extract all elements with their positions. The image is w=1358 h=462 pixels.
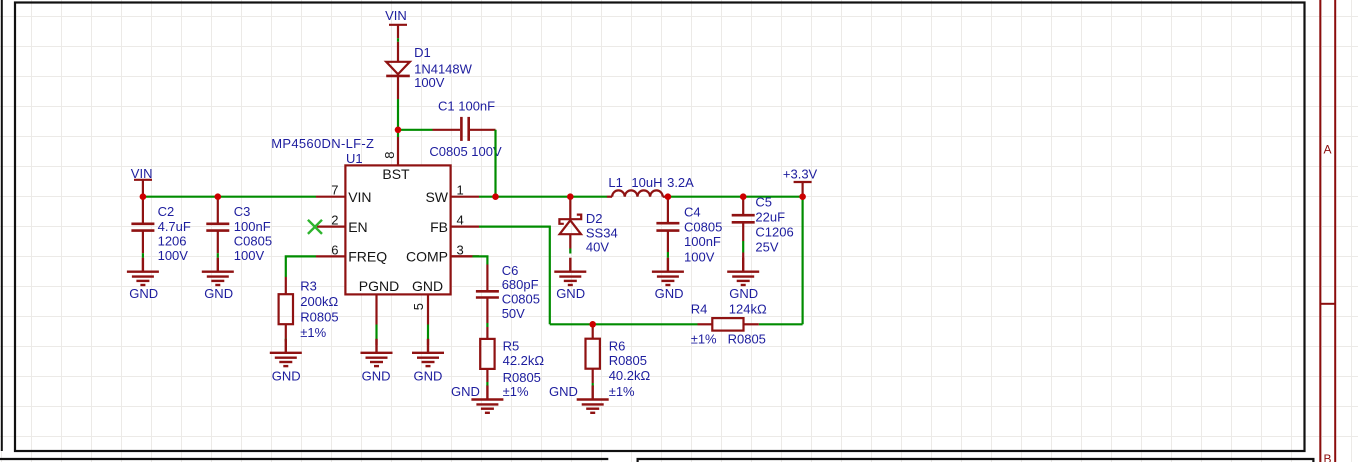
pin 7 VIN [316,196,345,198]
wire bottom feedback [550,323,698,325]
wire BST node to C1 [398,129,433,131]
svg-text:100V: 100V [158,248,189,263]
svg-text:100V: 100V [414,75,445,90]
wire COMP to C6 [473,256,488,264]
svg-text:B: B [1323,452,1331,462]
power flag +3.3V [794,182,812,197]
adjacent sheet edge left [1,0,3,451]
svg-text:D1: D1 [414,45,431,60]
ground under R3 [270,339,302,366]
svg-text:C0805: C0805 [684,219,722,234]
wire L1 to 3.3V [668,196,803,198]
svg-text:R0805: R0805 [300,309,338,324]
svg-text:C1 100nF: C1 100nF [438,98,495,113]
resistor R4 [698,318,759,331]
svg-text:100nF: 100nF [234,219,271,234]
svg-text:A: A [1323,143,1331,157]
svg-text:R0805: R0805 [728,332,766,347]
resistor R6 [586,324,600,383]
wire C3 to gnd [217,253,219,258]
svg-text:C0805: C0805 [502,291,540,306]
svg-text:C4: C4 [684,204,701,219]
ground under C3 [202,258,234,285]
wire C4 to gnd [667,252,669,258]
svg-text:680pF: 680pF [502,277,539,292]
svg-text:5: 5 [411,303,426,310]
svg-text:GND: GND [204,286,233,301]
svg-text:3: 3 [457,242,464,257]
junction R6 [589,321,596,328]
wire R4 to corner [759,323,803,325]
svg-text:R5: R5 [503,338,520,353]
capacitor C2 [131,197,154,254]
svg-text:+3.3V: +3.3V [783,166,818,181]
svg-text:200kΩ: 200kΩ [300,294,338,309]
junction +3.3V [799,193,806,200]
svg-text:R0805: R0805 [609,353,647,368]
svg-text:100V: 100V [234,248,265,263]
wire 3.3V down [801,197,803,325]
svg-text:BST: BST [382,166,410,182]
power flag VIN left [134,180,152,197]
pin 4 FB [451,226,479,228]
svg-text:50V: 50V [502,306,525,321]
svg-text:±1%: ±1% [691,332,717,347]
svg-text:±1%: ±1% [609,384,635,399]
wire C5 red part [742,253,744,259]
border zone divider [1320,303,1335,305]
svg-text:8: 8 [382,152,397,159]
wire SW node [479,196,607,198]
resistor R3 [279,277,293,339]
junction SW D2 [567,193,574,200]
svg-text:100V: 100V [684,249,715,264]
ground under C4 [652,258,684,285]
svg-text:±1%: ±1% [503,384,529,399]
svg-text:1: 1 [457,183,464,198]
pin 8 BST [397,137,399,165]
svg-text:GND: GND [655,286,684,301]
wire C5 to gnd [742,241,744,253]
svg-text:GND: GND [549,384,578,399]
no-connect X on EN [308,220,322,234]
resistor R5 [480,327,494,382]
wire C1 down to SW [494,130,496,197]
wire FREQ to R3 [286,256,316,277]
pin 6 FREQ [316,255,345,257]
diode D1 [386,42,410,99]
ground under R5 [471,386,503,413]
svg-text:R3: R3 [300,278,317,293]
pin 9 PGND [375,294,377,324]
svg-text:10uH: 10uH [631,175,662,190]
junction BST node [395,127,402,134]
svg-text:R0805: R0805 [503,370,541,385]
svg-text:40.2kΩ: 40.2kΩ [609,368,651,383]
inductor L1 [607,190,668,196]
wire D2 to gnd [569,249,571,254]
svg-text:GND: GND [129,286,158,301]
lower-right sheet top edge [638,459,1314,462]
svg-text:GND: GND [412,278,443,294]
svg-text:GND: GND [272,368,301,383]
svg-text:FREQ: FREQ [348,249,387,265]
wire COMP red part [451,255,473,257]
wire FB [479,227,550,325]
pin 1 SW [451,196,479,198]
border column line 1 [1319,0,1321,462]
svg-text:7: 7 [331,183,338,198]
svg-text:FB: FB [430,219,448,235]
svg-text:R6: R6 [609,338,626,353]
capacitor C5 [732,197,755,241]
svg-text:4: 4 [457,213,464,228]
svg-text:L1: L1 [608,175,622,190]
svg-text:VIN: VIN [385,8,407,23]
wire C2 to gnd [142,253,144,258]
svg-text:VIN: VIN [348,189,371,205]
wire VIN to D1 [397,38,399,42]
svg-text:25V: 25V [755,240,778,255]
wire pin8 [397,130,399,137]
svg-text:C6: C6 [502,263,519,278]
capacitor C1 [433,117,496,141]
svg-text:GND: GND [729,286,758,301]
lower-left sheet top edge [0,458,608,460]
svg-text:EN: EN [348,219,367,235]
junction SW C1 [492,193,499,200]
op-amp U1 MP4560 body [345,165,450,294]
svg-text:6: 6 [331,242,338,257]
ground under R6 [577,386,609,413]
wire PGND red [375,340,377,346]
svg-text:2: 2 [331,213,338,228]
svg-text:40V: 40V [586,240,609,255]
svg-text:U1: U1 [346,151,363,166]
wire GND5 green [427,325,429,340]
wire R5 to gnd [486,382,488,386]
svg-text:22uF: 22uF [755,210,785,225]
junction C5 [740,193,747,200]
wire R3 to gnd [285,339,287,342]
junction VIN C2 [140,193,147,200]
ground under C2 [127,258,159,285]
svg-text:C2: C2 [158,204,175,219]
capacitor C3 [206,197,229,254]
svg-text:3.2A: 3.2A [667,175,694,190]
svg-text:C0805: C0805 [234,234,272,249]
svg-text:1206: 1206 [158,234,187,249]
ground under GND5 [412,339,444,366]
svg-text:GND: GND [362,368,391,383]
diode D2 schottky [559,197,581,249]
svg-text:SS34: SS34 [586,225,618,240]
svg-text:GND: GND [451,384,480,399]
pin 2 EN [317,226,345,228]
svg-text:C5: C5 [755,195,772,210]
capacitor C4 [656,197,679,252]
junction VIN C3 [215,193,222,200]
border column line 2 [1334,0,1336,462]
ground under D2 [554,258,586,285]
svg-text:GND: GND [414,368,443,383]
svg-text:±1%: ±1% [300,325,326,340]
svg-text:100nF: 100nF [684,234,721,249]
svg-text:C0805 100V: C0805 100V [429,144,502,159]
wire PGND green [375,325,377,340]
power flag VIN top [389,25,407,39]
wire C6 to R5 [486,323,488,327]
wire GND5 red [427,340,429,346]
wire R6 to gnd [592,383,594,387]
svg-text:MP4560DN-LF-Z: MP4560DN-LF-Z [271,136,374,151]
svg-text:C1206: C1206 [755,225,793,240]
junction L1 C4 [665,193,672,200]
svg-text:SW: SW [425,189,448,205]
svg-text:C3: C3 [234,204,251,219]
svg-text:COMP: COMP [406,249,448,265]
wire D1 to BST node [397,99,399,130]
pin 5 GND [427,294,429,324]
svg-text:D2: D2 [586,211,603,226]
capacitor C6 [476,265,499,324]
wire VIN rail [143,196,316,198]
svg-text:4.7uF: 4.7uF [158,219,191,234]
svg-text:PGND: PGND [359,278,399,294]
pin 3 COMP [451,255,479,257]
ground under C5 [727,258,759,285]
svg-text:124kΩ: 124kΩ [729,301,767,316]
svg-text:VIN: VIN [131,166,153,181]
ground under PGND [361,339,393,366]
svg-text:GND: GND [556,286,585,301]
svg-text:42.2kΩ: 42.2kΩ [503,353,545,368]
svg-text:R4: R4 [691,301,708,316]
